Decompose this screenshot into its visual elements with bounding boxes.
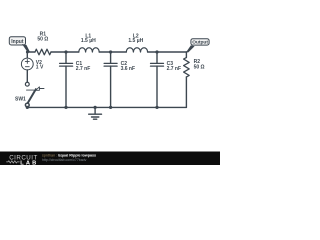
wire: junction to R1 xyxy=(27,51,35,53)
ground xyxy=(89,107,102,119)
label R2 xyxy=(194,59,201,65)
wire: bottom rail xyxy=(27,106,186,108)
svg-text:50 Ω: 50 Ω xyxy=(37,36,48,42)
footer bar xyxy=(0,152,220,166)
node: SW1 to bottom rail xyxy=(26,106,29,109)
node: C1 bottom junction xyxy=(64,106,67,109)
wire: node C down to C3 xyxy=(156,52,158,63)
svg-text:2.7 nF: 2.7 nF xyxy=(76,66,90,72)
label C3 xyxy=(167,61,174,67)
value label 1.5 uH (L2) xyxy=(128,38,143,44)
value label 50 Ohm (R2) xyxy=(194,65,205,71)
svg-text:Output: Output xyxy=(192,40,208,46)
value label 1 V (V2) xyxy=(36,65,44,71)
node: C2 bottom junction xyxy=(109,106,112,109)
svg-text:SW1: SW1 xyxy=(15,96,26,102)
value label 3.6 nF (C2) xyxy=(121,66,135,72)
svg-text:1.5 µH: 1.5 µH xyxy=(128,38,143,44)
voltage source V2 xyxy=(21,58,33,70)
output flag Output xyxy=(191,39,209,46)
svg-text:1 V: 1 V xyxy=(36,65,44,71)
svg-text:50 Ω: 50 Ω xyxy=(194,65,205,71)
node: C3 bottom junction xyxy=(155,106,158,109)
svg-text:LAB: LAB xyxy=(20,160,38,165)
value label 50 Ohm (R1) xyxy=(37,36,48,42)
value label 2.7 nF (C1) xyxy=(76,66,90,72)
label SW1 xyxy=(15,96,26,102)
wire: R1 to node A xyxy=(51,51,66,53)
wire: L1 to node B xyxy=(99,51,110,53)
label R1 xyxy=(40,32,47,38)
footer text line 2 xyxy=(42,158,87,162)
node: ground junction xyxy=(94,106,97,109)
wire: C2 to bottom rail xyxy=(110,66,112,107)
svg-text:Input: Input xyxy=(11,39,24,45)
svg-text:3.6 nF: 3.6 nF xyxy=(121,66,135,72)
value label 1.5 uH (L1) xyxy=(81,38,96,44)
wire: C1 to bottom rail xyxy=(65,66,67,107)
node A (R1/C1/L1) xyxy=(64,50,67,53)
CircuitLab logo xyxy=(7,154,39,166)
node: junction V2 / R1 xyxy=(26,51,29,54)
wire: node B to L2 xyxy=(111,51,127,53)
wire: L2 to node C xyxy=(148,51,157,53)
label L2 xyxy=(133,33,139,39)
wire: junction to V2 top xyxy=(26,52,28,58)
svg-text:http://circuitlab.com/c77badv: http://circuitlab.com/c77badv xyxy=(42,158,87,162)
switch SW1 xyxy=(25,82,44,107)
inductor L2 xyxy=(126,48,147,52)
label V2 xyxy=(36,60,42,66)
wire: node B down to C2 xyxy=(110,52,112,63)
svg-text:1.5 µH: 1.5 µH xyxy=(81,38,96,44)
wire: output corner to R2 xyxy=(185,52,187,58)
input flag Input xyxy=(9,37,25,46)
footer text line 1 xyxy=(42,153,96,157)
resistor R2 xyxy=(184,58,190,78)
svg-text:spnthan : Equal Ripple lowpass: spnthan : Equal Ripple lowpass xyxy=(42,153,96,157)
capacitor C2 xyxy=(104,63,117,66)
node B (L1/C2/L2) xyxy=(109,50,112,53)
wire: node A down to C1 xyxy=(65,52,67,63)
svg-text:2.7 nF: 2.7 nF xyxy=(167,66,181,72)
wire: C3 to bottom rail xyxy=(156,66,158,107)
label L1 xyxy=(85,33,91,39)
wire: Input flag diagonal lead xyxy=(22,44,30,52)
label C2 xyxy=(121,61,128,67)
wire: R2 to bottom rail xyxy=(185,77,187,107)
wire: node A to L1 xyxy=(66,51,79,53)
capacitor C1 xyxy=(60,63,73,66)
wire: Output flag diagonal lead xyxy=(186,45,195,52)
resistor R1 xyxy=(35,49,51,55)
label C1 xyxy=(76,61,83,67)
node C (L2/C3/R2) xyxy=(155,50,158,53)
capacitor C3 xyxy=(151,63,164,66)
wire: V2 bottom to SW1 xyxy=(26,70,28,82)
wire: node C to output corner xyxy=(157,51,186,53)
inductor L1 xyxy=(79,48,99,52)
value label 2.7 nF (C3) xyxy=(167,66,181,72)
